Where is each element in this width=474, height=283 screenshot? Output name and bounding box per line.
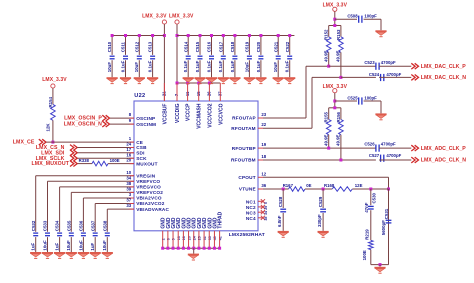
svg-text:VREFVCO: VREFVCO: [136, 179, 160, 184]
svg-text:34: 34: [264, 211, 268, 215]
svg-text:2: 2: [161, 238, 165, 240]
capacitor C538 10uF on 209.1 net with wire and ground: [102, 209, 134, 258]
svg-text:10uF: 10uF: [78, 240, 83, 251]
capacitor C516 0.1uF with ground: [206, 34, 217, 84]
capacitor C522 0.1uF with ground: [284, 34, 295, 84]
svg-text:C520: C520: [256, 41, 261, 52]
resistor R167 0E: [283, 183, 312, 191]
resistor R153 49.9E: [336, 26, 344, 78]
svg-text:23: 23: [261, 112, 266, 117]
svg-text:29: 29: [264, 206, 268, 210]
resistor R156 49.9E: [336, 108, 344, 160]
svg-text:C516: C516: [207, 41, 212, 52]
svg-text:R155: R155: [324, 111, 329, 122]
svg-text:C538: C538: [102, 220, 107, 231]
capacitor C520 0.1uF with ground: [255, 34, 266, 84]
svg-text:NC2: NC2: [246, 205, 256, 210]
capacitor C532 1uF on 175.7 net with wire and ground: [30, 176, 134, 259]
svg-text:LMX_ADC_CLK_P: LMX_ADC_CLK_P: [421, 146, 467, 152]
svg-text:20: 20: [187, 236, 191, 240]
off-page connector LMX_OSCIN_P: [64, 115, 109, 122]
wire: power to R155/R156 bar: [334, 93, 336, 108]
wire: ground bus under IC: [163, 247, 220, 249]
svg-text:R152: R152: [324, 29, 329, 40]
svg-text:C536: C536: [79, 220, 84, 231]
off-page connector LMX_MUXOUT: [31, 161, 77, 168]
svg-text:VCCVCO2: VCCVCO2: [207, 103, 213, 127]
svg-text:C521: C521: [273, 41, 278, 52]
off-page connector LMX_ADC_CLK_N: [411, 157, 466, 164]
svg-text:8: 8: [129, 112, 132, 117]
svg-text:VCCBUF: VCCBUF: [162, 104, 168, 125]
pin stubs: U22 left pins (red): [130, 118, 135, 209]
svg-text:10uF: 10uF: [107, 62, 112, 73]
svg-text:18: 18: [261, 154, 266, 159]
svg-text:VCCMASH: VCCMASH: [197, 103, 203, 129]
capacitor C529 330pF to ground: [317, 189, 329, 237]
svg-text:VBIA2VCO2: VBIA2VCO2: [136, 201, 165, 206]
capacitor C535 10uF on 192.4 net with wire and ground: [66, 192, 134, 258]
svg-text:SDI: SDI: [136, 151, 144, 156]
svg-text:10uF: 10uF: [134, 62, 139, 73]
svg-text:CSB: CSB: [136, 145, 147, 150]
pin stubs: VCC pins 21 7 11 15 26 32: [164, 83, 220, 101]
off-page connector LMX_ADC_CLK_P: [411, 145, 466, 152]
svg-text:C527: C527: [369, 153, 380, 158]
node junction R156 / ADC_N: [339, 159, 342, 162]
off-page connector LMX_CE: [13, 139, 46, 146]
wire: LMX_3.3V down to pin 21 VCCBUF: [163, 24, 165, 101]
resistor R154 12K: [46, 88, 56, 142]
svg-text:C523: C523: [364, 60, 375, 65]
capacitor C512 10uF with ground: [134, 34, 145, 84]
svg-text:LMX_CE: LMX_CE: [13, 140, 35, 146]
svg-text:C530: C530: [372, 192, 377, 203]
svg-text:10uF: 10uF: [244, 62, 249, 73]
wire: LMX_SCLK to SCK: [78, 157, 135, 159]
svg-text:RFOUTBP: RFOUTBP: [232, 146, 256, 151]
off-page connector LMX_SDI: [41, 150, 77, 157]
svg-text:VREGIN: VREGIN: [136, 173, 156, 178]
svg-text:LMX_DAC_CLK_N: LMX_DAC_CLK_N: [421, 75, 467, 81]
node junction at C525 tap: [333, 100, 336, 103]
svg-text:9: 9: [129, 118, 132, 123]
capacitor C533 10uF on 181.3 net with wire and ground: [42, 181, 134, 258]
svg-text:4700pF: 4700pF: [381, 60, 396, 65]
no-connect pins NC1-NC4 with X marks: [258, 199, 268, 220]
svg-text:R219: R219: [365, 229, 370, 240]
off-page connector LMX_DAC_CLK_N: [411, 75, 466, 82]
svg-text:LMX_3.3V: LMX_3.3V: [142, 14, 167, 20]
svg-text:24: 24: [192, 236, 196, 240]
svg-text:C529: C529: [318, 196, 323, 207]
svg-text:LMX_ADC_CLK_N: LMX_ADC_CLK_N: [421, 158, 467, 164]
svg-text:CPOUT: CPOUT: [238, 175, 255, 180]
svg-text:OSCINP: OSCINP: [136, 116, 155, 121]
svg-text:4700pF: 4700pF: [386, 72, 401, 77]
node junction on bottom rail: [379, 263, 382, 266]
svg-text:10: 10: [126, 170, 131, 175]
node junction at C509 tap: [333, 18, 336, 21]
pin stub CPOUT 12: [258, 176, 263, 178]
wire: OSCIN_N to pin 9: [110, 123, 134, 125]
IC U22 LMX2592RHAT outline: [134, 93, 258, 231]
svg-text:1uF: 1uF: [55, 242, 60, 250]
svg-text:47nF: 47nF: [364, 202, 369, 213]
svg-text:10uF: 10uF: [102, 240, 107, 251]
power symbol LMX_3.3V (DAC block): [323, 2, 348, 11]
svg-text:10uF: 10uF: [66, 240, 71, 251]
resistor R168 12E: [324, 183, 363, 191]
wire: power to R152/R153 bar: [334, 11, 336, 25]
capacitor C513 0.1uF with ground: [147, 34, 158, 84]
wire: RFOUTAP up and over: [263, 66, 329, 118]
svg-text:10uF: 10uF: [273, 62, 278, 73]
power symbol LMX_3.3V (left): [42, 77, 67, 88]
svg-text:C522: C522: [285, 41, 290, 52]
U22 left pin names and pin numbers: [126, 112, 169, 212]
U22 bottom pin numbers: [161, 236, 222, 240]
svg-text:NC4: NC4: [246, 216, 256, 221]
resistor R155 49.9E: [323, 108, 331, 148]
wire: LMX_3.3V down to VCC rail: [176, 24, 178, 83]
capacitor C536 10uF on 198.0 net with wire and ground: [78, 198, 134, 258]
capacitor C526 4700pF: [364, 142, 396, 152]
junction dots on ground bus: [161, 247, 221, 250]
svg-text:100E: 100E: [110, 158, 120, 163]
svg-text:LMX_MUXOUT: LMX_MUXOUT: [31, 161, 69, 167]
wire: LMX_CS_N to CSB: [78, 147, 135, 149]
svg-text:C519: C519: [245, 41, 250, 52]
svg-text:C515: C515: [195, 41, 200, 52]
svg-text:C517: C517: [218, 41, 223, 52]
svg-text:49.9E: 49.9E: [336, 50, 341, 62]
power symbol LMX_3.3V (over pin 7): [169, 14, 194, 24]
wire: RFOUTAM up and over: [263, 77, 341, 128]
svg-text:MUXOUT: MUXOUT: [136, 161, 158, 166]
svg-text:1uF: 1uF: [31, 242, 36, 250]
wire: OSCIN_P to pin 8: [110, 117, 134, 119]
svg-text:LMX_3.3V: LMX_3.3V: [42, 77, 67, 83]
capacitor C524 4700pF: [369, 72, 402, 81]
svg-text:CE: CE: [136, 140, 143, 145]
pin stub RFOUTAP 23: [258, 117, 263, 119]
svg-text:VBIA2VCO: VBIA2VCO: [136, 196, 162, 201]
svg-text:THPAD: THPAD: [218, 211, 224, 228]
capacitor C508 100pF to ground: [335, 14, 387, 37]
svg-text:R153: R153: [336, 29, 341, 40]
svg-text:0.1uF: 0.1uF: [195, 60, 200, 72]
svg-text:LMX_DAC_CLK_P: LMX_DAC_CLK_P: [421, 64, 467, 70]
capacitor C518 0.1uF with ground: [229, 34, 240, 84]
capacitor C531 5600pF: [381, 189, 391, 265]
capacitor C525 100pF to ground: [335, 95, 387, 119]
svg-text:VBIADVARAC: VBIADVARAC: [136, 207, 169, 212]
node junction R153 / DAC_N: [339, 76, 342, 79]
off-page connector LMX_CS_N: [36, 145, 77, 152]
capacitor C515 0.1uF with ground: [194, 34, 205, 84]
svg-text:13: 13: [177, 236, 181, 240]
svg-text:C525: C525: [347, 95, 358, 100]
node junction R152 / DAC_P: [327, 65, 330, 68]
wire: DAC_P to C523: [329, 65, 376, 67]
svg-text:49.9E: 49.9E: [323, 50, 328, 62]
svg-text:C511: C511: [121, 41, 126, 52]
svg-text:LMX_3.3V: LMX_3.3V: [323, 84, 348, 90]
node junction C529 tap: [322, 188, 325, 191]
svg-text:VTUNE: VTUNE: [239, 187, 256, 192]
svg-text:R156: R156: [336, 111, 341, 122]
svg-text:NC1: NC1: [246, 200, 256, 205]
svg-text:49.9E: 49.9E: [336, 134, 341, 146]
svg-text:LMX2592RHAT: LMX2592RHAT: [229, 232, 265, 238]
capacitor C511 0.1uF with ground: [120, 34, 131, 84]
svg-text:330pF: 330pF: [317, 214, 322, 227]
svg-text:LMX_3.3V: LMX_3.3V: [169, 14, 194, 20]
svg-text:16: 16: [182, 236, 186, 240]
svg-text:VCCDIG: VCCDIG: [175, 103, 181, 123]
node junction at right cap rail / power wire: [176, 34, 179, 37]
pin stub RFOUTBM 18: [258, 159, 263, 161]
capacitor C519 10uF with ground: [244, 34, 255, 84]
svg-text:C535: C535: [66, 220, 71, 231]
svg-text:9: 9: [172, 238, 176, 240]
wire: R152/R153 top bar: [329, 24, 341, 27]
svg-text:0.1uF: 0.1uF: [218, 60, 223, 72]
U22 top pin names and pin numbers: [162, 91, 225, 129]
svg-text:NC3: NC3: [246, 211, 256, 216]
svg-text:36: 36: [261, 183, 266, 188]
pin stub RFOUTAM 22: [258, 127, 263, 129]
wire: LMX_MUXOUT to R338: [78, 163, 93, 165]
svg-text:C528: C528: [278, 196, 283, 207]
wire: DAC_N to C524: [341, 76, 376, 78]
svg-text:C537: C537: [90, 220, 95, 231]
svg-text:19: 19: [261, 142, 266, 147]
svg-text:12: 12: [261, 171, 266, 176]
wire: C523 to connector: [379, 65, 411, 67]
svg-text:0.1uF: 0.1uF: [148, 60, 153, 72]
node junction CPOUT/VTUNE node: [387, 188, 390, 191]
svg-text:C513: C513: [148, 41, 153, 52]
wire: right bypass rail: [177, 35, 294, 37]
wire: LMX_SDI to SDI: [78, 152, 135, 154]
IC part number label: [229, 232, 265, 238]
resistor R338 100E: [79, 158, 120, 166]
svg-text:100E: 100E: [362, 250, 367, 260]
capacitor C510 10uF with ground: [107, 34, 118, 84]
resistor R219 100E: [362, 229, 373, 265]
svg-text:VCCCP: VCCCP: [186, 103, 192, 121]
svg-text:22: 22: [261, 122, 266, 127]
svg-text:100pF: 100pF: [364, 95, 377, 100]
svg-text:1: 1: [129, 136, 132, 141]
wire: VTUNE to R167: [263, 188, 289, 190]
svg-text:C508: C508: [347, 14, 358, 19]
ground symbol loop filter: [374, 265, 385, 274]
pin stub RFOUTBP 19: [258, 147, 263, 149]
svg-text:41: 41: [218, 236, 222, 240]
node junction C530 tap: [369, 188, 372, 191]
off-page connector LMX_OSCIN_N: [64, 121, 110, 128]
capacitor C517 0.1uF with ground: [218, 34, 229, 84]
svg-text:12K: 12K: [46, 123, 51, 132]
svg-text:1uF: 1uF: [90, 242, 95, 250]
wire: R155/R156 top bar: [329, 106, 341, 109]
node junction C528 tap: [282, 188, 285, 191]
node junction R155 / ADC_P: [327, 147, 330, 150]
capacitor C527 4700pF: [369, 153, 402, 162]
svg-text:C533: C533: [43, 220, 48, 231]
svg-text:LMX_OSCIN_N: LMX_OSCIN_N: [64, 122, 102, 128]
wire: R167 to R168: [305, 188, 332, 190]
pin stubs: bottom GND/THPAD pins: [163, 231, 220, 248]
svg-text:C532: C532: [31, 220, 36, 231]
svg-text:RFOUTAP: RFOUTAP: [232, 116, 256, 121]
svg-text:OSCINM: OSCINM: [136, 122, 156, 127]
U22 right pin names and pin numbers: [231, 112, 267, 221]
pin stub VTUNE 36: [258, 188, 263, 190]
svg-text:R168: R168: [324, 183, 335, 188]
capacitor C530 47nF: [364, 189, 377, 240]
svg-text:25: 25: [198, 236, 202, 240]
capacitor C523 4700pF: [364, 60, 396, 70]
wire: LMX_CE to pin 1 CE: [46, 141, 134, 143]
svg-text:0.1uF: 0.1uF: [183, 60, 188, 72]
node junction R154 / CE net: [51, 141, 54, 144]
svg-text:VREFVCO2: VREFVCO2: [136, 190, 163, 195]
capacitor C534 1uF on 186.9 net with wire and ground: [54, 187, 134, 259]
svg-text:4700pF: 4700pF: [386, 153, 401, 158]
wire: RFOUTBM to C527: [263, 159, 376, 161]
wire: loop filter bottom rail: [371, 264, 389, 266]
svg-text:RFOUTAM: RFOUTAM: [231, 126, 256, 131]
wire: C524 to connector: [379, 76, 411, 78]
svg-text:5600pF: 5600pF: [381, 220, 386, 235]
node junction at left cap rail / pin21 wire: [163, 34, 166, 37]
wire: R338 to MUXOUT pin: [108, 163, 134, 165]
svg-text:C526: C526: [364, 142, 375, 147]
svg-text:R154: R154: [48, 96, 53, 107]
svg-text:C518: C518: [230, 41, 235, 52]
svg-text:49.9E: 49.9E: [323, 134, 328, 146]
wire: VCC distribution rail: [177, 82, 220, 84]
svg-text:U22: U22: [134, 93, 145, 99]
svg-text:6: 6: [167, 238, 171, 240]
svg-text:C524: C524: [369, 72, 380, 77]
svg-text:0.1uF: 0.1uF: [206, 60, 211, 72]
svg-text:6.8nF: 6.8nF: [277, 215, 282, 227]
wire: C526 to connector: [379, 147, 411, 149]
svg-text:R338: R338: [79, 158, 90, 163]
wire: C527 to connector: [379, 159, 411, 161]
svg-text:0.1uF: 0.1uF: [120, 60, 125, 72]
svg-text:12E: 12E: [355, 183, 363, 188]
capacitor C528 6.8nF to ground: [277, 189, 289, 237]
svg-text:0.1uF: 0.1uF: [256, 60, 261, 72]
svg-text:100pF: 100pF: [364, 14, 377, 19]
svg-text:38: 38: [264, 217, 268, 221]
svg-text:C534: C534: [55, 220, 60, 231]
capacitor C514 0.1uF with ground: [183, 34, 194, 84]
svg-text:C514: C514: [183, 41, 188, 52]
svg-text:R167: R167: [283, 183, 294, 188]
wire: RFOUTBP to C526: [263, 147, 376, 149]
svg-text:VCCVCO: VCCVCO: [218, 103, 224, 125]
junctions on VCC rail: [176, 82, 211, 85]
capacitor C521 10uF with ground: [273, 34, 284, 84]
svg-text:0E: 0E: [306, 183, 311, 188]
svg-text:5: 5: [264, 202, 268, 204]
svg-text:VREGVCO: VREGVCO: [136, 185, 161, 190]
svg-text:10uF: 10uF: [42, 240, 47, 251]
svg-text:0.1uF: 0.1uF: [230, 60, 235, 72]
svg-text:40: 40: [213, 236, 217, 240]
capacitor C537 1uF on 203.5 net with wire and ground: [90, 204, 134, 259]
off-page connector LMX_DAC_CLK_P: [411, 63, 466, 70]
svg-text:C531: C531: [384, 208, 389, 219]
svg-text:31: 31: [203, 236, 207, 240]
power symbol LMX_3.3V (over pin 21): [142, 14, 167, 24]
svg-text:0.1uF: 0.1uF: [285, 60, 290, 72]
svg-text:RFOUTBM: RFOUTBM: [231, 158, 256, 163]
wire: left bypass rail: [112, 35, 164, 37]
power symbol LMX_3.3V (ADC block): [323, 84, 348, 93]
svg-text:SCK: SCK: [136, 156, 147, 161]
U22 bottom pin names (GND x11, THPAD): [161, 211, 224, 228]
svg-text:4700pF: 4700pF: [381, 142, 396, 147]
wire: R168 to CPOUT node: [352, 188, 388, 190]
svg-text:LMX_3.3V: LMX_3.3V: [323, 2, 348, 8]
off-page connector LMX_SCLK: [36, 155, 78, 162]
svg-text:C512: C512: [134, 41, 139, 52]
svg-text:35: 35: [208, 236, 212, 240]
wire: CPOUT over to right side: [263, 177, 389, 264]
resistor R152 49.9E: [323, 26, 331, 67]
ground symbol under IC: [188, 248, 199, 260]
svg-text:C510: C510: [107, 41, 112, 52]
